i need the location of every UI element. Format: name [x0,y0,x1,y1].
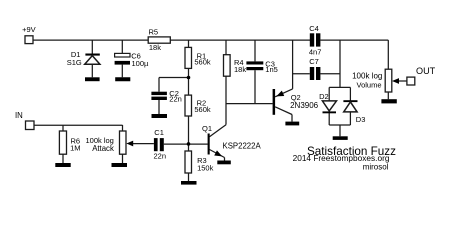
diode D3 [343,100,357,112]
wire: vertical rail to diode pair [339,40,341,87]
wire: C2 bottom stem [158,100,160,114]
wire: Q1 collector diagonal [210,125,227,137]
svg-text:Volume: Volume [357,80,382,89]
wire: C2 top stem [158,78,160,92]
svg-text:4n7: 4n7 [309,48,322,57]
capacitor C1 [154,138,164,151]
ground (C2) [152,114,168,118]
ground (D1) [85,77,100,81]
wire: volume pot bottom stem [387,92,389,99]
potentiometer Attack 100k log [120,131,134,154]
resistor R6 [59,131,66,154]
svg-text:100k log: 100k log [352,71,382,80]
capacitor C2 [151,92,167,100]
svg-text:1M: 1M [70,144,80,153]
wire: R1 top stem [188,40,190,47]
junction node (R1/R2/C2) [187,76,191,80]
svg-text:Attack: Attack [92,144,114,153]
ground (D2/D3) [333,136,348,140]
svg-text:D2: D2 [319,92,329,101]
svg-text:100µ: 100µ [132,59,150,68]
svg-text:18k: 18k [234,65,246,74]
wire: C7 left horizontal [293,73,310,75]
capacitor C6 [115,53,130,64]
capacitor C4 [310,33,321,46]
wire: +9V rail middle segment [170,39,310,41]
wire: D1 bottom stem [91,64,93,77]
resistor R5 [148,37,170,43]
svg-text:150k: 150k [197,164,214,173]
wire: R4 bottom to Q1 collector bend [225,76,227,125]
wire: R3 bottom stem [188,173,190,181]
ground (Q1) [217,161,231,165]
wire: attack pot bottom stem [122,154,124,163]
wire: attack pot top stem [122,125,124,131]
capacitor C3 [246,61,263,70]
potentiometer Volume 100k log [385,69,399,92]
wire: rail corner down to volume pot [387,40,389,69]
svg-text:+9V: +9V [22,25,36,34]
junction node (base of Q1) [187,142,191,146]
svg-text:C7: C7 [309,57,319,66]
diode D1 [85,54,100,65]
diode D2 [322,101,336,113]
wire: C3 bottom stem [254,70,256,103]
svg-text:IN: IN [15,111,23,120]
wire: C6 bottom stem [121,65,123,78]
svg-text:C1: C1 [154,128,164,137]
wire: attack wiper to C1 [132,143,154,145]
resistor R2 [185,95,192,116]
wire: diode pair top bus [329,86,350,88]
svg-text:S1G: S1G [67,58,82,67]
wire: C6 top stem [121,40,123,53]
wire: Q1 emitter diagonal [210,150,225,158]
svg-text:560k: 560k [194,58,211,67]
svg-text:C4: C4 [309,24,319,33]
resistor R1 [185,47,192,68]
svg-text:22n: 22n [154,152,167,161]
wire: R2 bottom through base node to R3 top [188,116,190,151]
svg-text:22n: 22n [169,95,182,104]
ground (R3) [181,181,197,185]
resistor R3 [185,151,192,173]
wire: D3 top stem [349,87,351,100]
wire: +9V rail left segment [33,39,148,41]
pad OUT [407,77,415,85]
resistor R4 [224,55,231,76]
wire: collector node horizontal to Q2 base [226,103,273,105]
wire: diode pair bottom bus [329,124,350,126]
wire: D1 top stem [91,40,93,54]
wire: D2 top stem [328,87,330,101]
wire: Q2 collector diagonal [275,107,292,115]
svg-text:D3: D3 [356,115,366,124]
wire: R6 top stem [62,125,64,131]
wire: D2 bottom stem [328,113,330,125]
transistor Q2 [273,89,285,115]
wire: C1 to Q1 base [164,143,208,145]
wire: IN horizontal [34,124,123,126]
ground (C6) [115,77,130,81]
transistor Q1 [208,134,224,159]
ground (Q2) [285,122,299,126]
wire: Q1 emitter down to ground [224,158,226,161]
svg-text:R5: R5 [149,28,159,37]
wire: C3 top stem [254,40,256,61]
svg-text:1n5: 1n5 [265,65,278,74]
wire: diode pair ground stem [339,125,341,136]
svg-text:2N3906: 2N3906 [290,101,319,110]
svg-text:560k: 560k [194,105,211,114]
pad +9V [25,36,33,44]
wire: D3 bottom stem [349,112,351,125]
pad IN [26,121,35,130]
wire: C2 horizontal to R1/R2 node [159,77,189,79]
capacitor C7 [310,67,321,80]
wire: R4 top stem [225,40,227,55]
ground (Attack pot) [112,163,128,167]
svg-text:Q1: Q1 [202,124,212,133]
wire: R1 bottom to R2 top [188,68,190,95]
wire: C7 right horizontal [320,73,340,75]
svg-text:KSP2222A: KSP2222A [223,141,262,150]
wire: R6 bottom stem [62,154,64,163]
wire: Q2 collector down to ground [291,115,293,122]
ground (Volume pot) [381,99,396,103]
wire: volume wiper to OUT pad [399,80,407,82]
wire: rail right segment after C4 [320,39,388,41]
ground (R6) [55,163,70,167]
wire: Q2 emitter diagonal [275,89,293,97]
svg-text:mirosol: mirosol [363,162,389,171]
svg-text:OUT: OUT [416,66,436,76]
wire: Q2 emitter vertical to rail [292,40,294,89]
svg-text:18k: 18k [149,43,161,52]
